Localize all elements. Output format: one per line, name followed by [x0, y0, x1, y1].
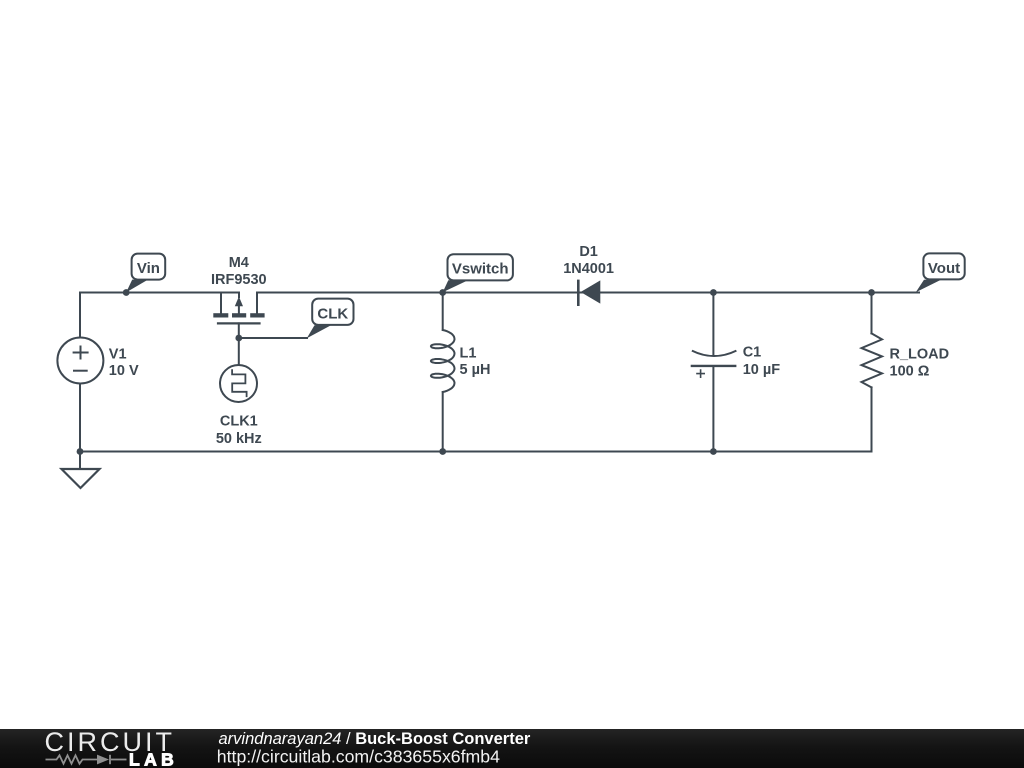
svg-text:L1: L1	[460, 345, 477, 361]
svg-text:V1: V1	[109, 347, 127, 363]
node CLK flag	[307, 299, 354, 339]
svg-text:http://circuitlab.com/c383655x: http://circuitlab.com/c383655x6fmb4	[217, 746, 500, 766]
wire C1 top	[712, 293, 714, 356]
node Vout flag	[916, 253, 965, 292]
ground	[62, 469, 100, 488]
svg-text:10 V: 10 V	[109, 363, 139, 379]
node dot Vout	[868, 289, 875, 296]
svg-text:5 µH: 5 µH	[460, 362, 491, 378]
wire left vertical V1 top	[79, 293, 81, 339]
transistor M4 gate line	[218, 322, 260, 324]
wire top rail right (MOSFET source to Vout flag)	[257, 292, 919, 294]
svg-text:50 kHz: 50 kHz	[216, 431, 262, 447]
transistor M4 bulk arrow	[235, 297, 243, 307]
wire ground stub	[79, 452, 81, 470]
node Vswitch flag	[443, 254, 513, 292]
svg-text:R_LOAD: R_LOAD	[890, 346, 950, 362]
svg-text:CLK1: CLK1	[220, 413, 258, 429]
wire C1 bottom	[712, 366, 714, 452]
svg-text:arvindnarayan24 / Buck-Boost C: arvindnarayan24 / Buck-Boost Converter	[219, 730, 531, 748]
node dot L1 bottom	[439, 448, 446, 455]
svg-text:Vswitch: Vswitch	[452, 261, 509, 278]
svg-text:Vout: Vout	[928, 260, 960, 277]
junction dots	[77, 289, 875, 455]
node dot gate/CLK	[235, 335, 242, 342]
schematic strokes	[80, 293, 919, 470]
svg-text:D1: D1	[579, 244, 598, 260]
wire L1 bottom	[442, 392, 444, 452]
svg-text:LAB: LAB	[129, 749, 178, 768]
wire bottom rail	[80, 451, 872, 453]
inductor L1 coil	[431, 330, 455, 392]
resistor R_LOAD zigzag	[862, 333, 883, 387]
node dot C1 bottom	[710, 448, 717, 455]
node dot C1 top	[710, 289, 717, 296]
node dot Vin	[123, 289, 130, 296]
wire Vswitch drop to L1	[442, 293, 444, 331]
svg-text:C1: C1	[743, 344, 762, 360]
svg-text:IRF9530: IRF9530	[211, 272, 267, 288]
wire V1 bottom to rail	[79, 384, 81, 452]
wire gate drop	[238, 323, 240, 338]
wire CLK branch	[239, 337, 307, 339]
svg-text:10 µF: 10 µF	[743, 362, 781, 378]
transistor M4 drain stub	[220, 293, 222, 314]
component labels	[109, 244, 949, 447]
svg-text:Vin: Vin	[137, 260, 160, 277]
svg-text:1N4001: 1N4001	[563, 261, 614, 277]
svg-text:M4: M4	[229, 255, 249, 271]
voltage source V1	[57, 338, 103, 384]
node dot Vswitch	[439, 289, 446, 296]
wire top rail left (Vin to MOSFET drain)	[80, 293, 239, 298]
wire R_LOAD bottom	[871, 387, 873, 451]
clock source CLK1	[220, 365, 257, 402]
capacitor C1	[691, 351, 737, 378]
diode D1	[578, 280, 600, 306]
svg-text:100 Ω: 100 Ω	[890, 363, 930, 379]
wire gate to CLK1	[238, 338, 240, 365]
svg-text:CLK: CLK	[317, 306, 348, 323]
logo squiggle resistor-diode	[46, 755, 127, 764]
wire R_LOAD top	[871, 293, 873, 334]
transistor M4 source stub	[256, 293, 258, 314]
transistor M4 channel bars	[213, 297, 264, 318]
logo diode triangle	[97, 755, 109, 765]
node dot ground tee	[77, 448, 84, 455]
node Vin flag	[126, 254, 165, 293]
